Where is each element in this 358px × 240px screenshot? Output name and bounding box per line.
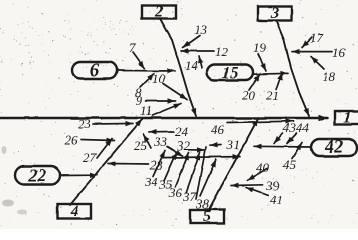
svg-text:44: 44 (296, 120, 310, 135)
svg-text:20: 20 (242, 88, 256, 103)
svg-text:39: 39 (265, 178, 280, 193)
svg-text:21: 21 (266, 88, 279, 103)
svg-text:14: 14 (185, 58, 199, 73)
svg-text:26: 26 (65, 133, 79, 148)
svg-text:18: 18 (322, 69, 336, 84)
svg-text:15: 15 (222, 63, 240, 82)
svg-text:6: 6 (90, 60, 100, 81)
svg-text:38: 38 (195, 196, 210, 211)
svg-text:7: 7 (129, 40, 136, 55)
svg-text:34: 34 (144, 174, 159, 189)
svg-text:19: 19 (253, 40, 267, 55)
svg-text:32: 32 (176, 138, 191, 153)
svg-text:13: 13 (194, 22, 208, 37)
svg-text:42: 42 (324, 138, 344, 158)
svg-text:16: 16 (332, 45, 346, 60)
svg-text:37: 37 (182, 189, 197, 204)
svg-text:43: 43 (283, 120, 297, 135)
svg-text:27: 27 (83, 150, 97, 165)
svg-text:24: 24 (175, 124, 189, 139)
svg-text:1: 1 (344, 109, 352, 126)
svg-text:28: 28 (150, 158, 164, 173)
svg-text:41: 41 (270, 192, 283, 207)
svg-text:2: 2 (154, 4, 163, 21)
svg-text:36: 36 (168, 185, 183, 200)
svg-text:3: 3 (270, 5, 279, 22)
svg-text:11: 11 (140, 103, 152, 118)
svg-text:46: 46 (211, 122, 225, 137)
svg-text:31: 31 (226, 137, 240, 152)
svg-text:10: 10 (152, 71, 166, 86)
svg-text:33: 33 (153, 134, 168, 149)
svg-text:17: 17 (310, 30, 324, 45)
svg-text:23: 23 (78, 116, 92, 131)
svg-text:4: 4 (69, 203, 78, 220)
svg-text:25: 25 (134, 138, 148, 153)
svg-text:22: 22 (28, 165, 47, 185)
svg-text:40: 40 (256, 160, 270, 175)
svg-text:12: 12 (215, 44, 229, 59)
svg-text:45: 45 (283, 157, 297, 172)
